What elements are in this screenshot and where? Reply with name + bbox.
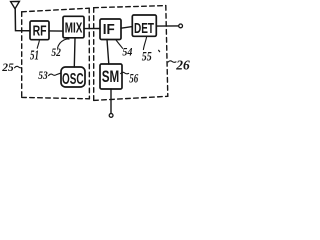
svg-text:55: 55 [142, 50, 152, 64]
svg-text:SM: SM [102, 68, 120, 86]
svg-text:52: 52 [51, 47, 61, 59]
svg-text:25: 25 [1, 60, 13, 74]
svg-text:56: 56 [129, 72, 139, 86]
svg-text:54: 54 [122, 47, 132, 59]
svg-text:26: 26 [175, 59, 189, 74]
svg-text:MIX: MIX [65, 21, 83, 37]
svg-text:51: 51 [30, 48, 39, 63]
svg-text:OSC: OSC [62, 71, 84, 88]
svg-text:IF: IF [103, 21, 115, 38]
svg-text:RF: RF [33, 23, 47, 39]
svg-text:DET: DET [134, 21, 154, 37]
svg-text:53: 53 [38, 68, 48, 82]
